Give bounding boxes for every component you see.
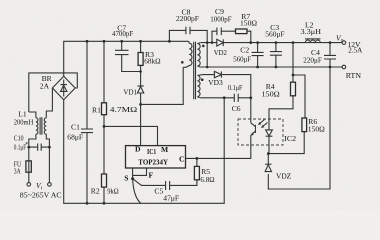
svg-text:C2: C2	[240, 45, 249, 54]
svg-text:150Ω: 150Ω	[262, 90, 281, 99]
svg-text:47μF: 47μF	[163, 193, 179, 202]
svg-text:*: *	[25, 142, 28, 148]
svg-text:C: C	[179, 154, 184, 163]
svg-text:D: D	[135, 145, 141, 154]
svg-text:M: M	[161, 145, 168, 154]
svg-text:VD1: VD1	[123, 87, 137, 96]
svg-text:4700pF: 4700pF	[112, 29, 133, 38]
svg-text:150Ω: 150Ω	[308, 125, 325, 134]
svg-text:4.7MΩ: 4.7MΩ	[110, 105, 138, 114]
svg-text:R2: R2	[91, 186, 100, 195]
svg-text:IC2: IC2	[284, 134, 296, 143]
svg-text:6.8Ω: 6.8Ω	[200, 175, 215, 184]
svg-text:0.1μF: 0.1μF	[228, 83, 243, 92]
svg-text:560μF: 560μF	[233, 54, 251, 63]
svg-text:R1: R1	[92, 105, 101, 114]
svg-text:200mH: 200mH	[14, 118, 34, 127]
svg-text:2.5A: 2.5A	[348, 46, 362, 55]
svg-text:560μF: 560μF	[265, 30, 284, 39]
svg-text:S: S	[124, 174, 128, 183]
svg-text:68kΩ: 68kΩ	[144, 57, 161, 66]
svg-text:85~265V AC: 85~265V AC	[20, 190, 62, 199]
svg-text:220μF: 220μF	[303, 55, 322, 64]
svg-text:3.3μH: 3.3μH	[301, 27, 322, 36]
svg-text:TOP234Y: TOP234Y	[138, 158, 168, 167]
svg-text:9kΩ: 9kΩ	[107, 186, 119, 195]
svg-text:68μF: 68μF	[67, 132, 83, 141]
svg-text:C1: C1	[71, 123, 80, 132]
svg-text:2200pF: 2200pF	[176, 14, 199, 23]
svg-text:C5: C5	[154, 187, 163, 196]
svg-text:C10: C10	[14, 134, 24, 143]
svg-text:VD2: VD2	[214, 48, 227, 57]
svg-text:RTN: RTN	[346, 71, 362, 80]
svg-text:IC1: IC1	[147, 147, 156, 156]
svg-text:C6: C6	[232, 104, 241, 113]
svg-text:VDZ: VDZ	[276, 172, 292, 181]
svg-text:VD3: VD3	[208, 78, 223, 87]
svg-text:3A: 3A	[14, 167, 21, 176]
svg-text:2A: 2A	[40, 81, 50, 90]
svg-text:1000pF: 1000pF	[210, 14, 231, 23]
svg-text:F: F	[149, 170, 154, 179]
svg-text:150Ω: 150Ω	[240, 19, 257, 28]
